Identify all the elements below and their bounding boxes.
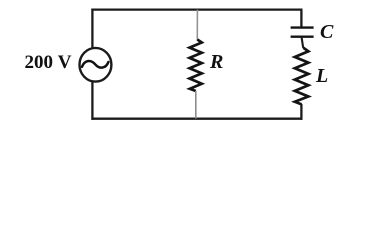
wire right lower [300,104,302,120]
wire top [91,8,302,10]
inductor L [295,48,309,105]
wire middle upper [196,10,198,41]
resistor R [190,40,202,92]
wire bottom [91,118,302,120]
wire right upper [300,10,302,27]
label R [210,51,223,74]
label L [316,65,328,88]
wire middle lower [195,91,197,119]
wire left upper [91,9,93,49]
capacitor C top plate [291,26,314,28]
label C [320,21,333,44]
capacitor C bottom plate [291,36,314,38]
label 200 V [25,52,72,74]
wire left lower [91,81,93,120]
ac voltage source circle [80,48,112,82]
wire capacitor to inductor [302,37,304,48]
ac voltage source sine symbol [82,61,108,68]
